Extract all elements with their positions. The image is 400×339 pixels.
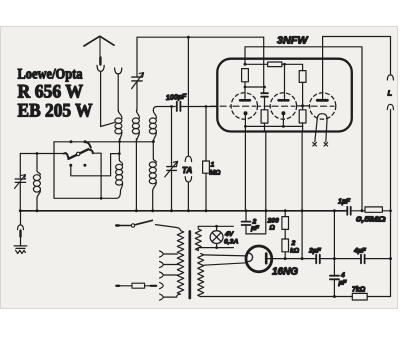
wire top-left grid feed y37 — [137, 36, 264, 38]
TA pickup terminals — [185, 37, 191, 211]
svg-text:16NG: 16NG — [272, 266, 298, 277]
wire switch B loop to L1b top — [71, 154, 120, 176]
variable capacitor C-tune2 — [165, 107, 178, 211]
node (188.4,37.2) — [187, 36, 190, 39]
svg-text:2: 2 — [291, 240, 296, 247]
band switch S1 — [64, 142, 93, 159]
svg-text:100µF: 100µF — [166, 92, 188, 102]
capacitor 100pF — [177, 102, 181, 111]
node (245,87) — [244, 86, 247, 89]
wire L1 bottom through to node — [119, 139, 121, 154]
node (283.4,126.4) — [282, 125, 285, 128]
node (302.1,258.6) — [301, 257, 304, 260]
svg-text:Loewe/Opta: Loewe/Opta — [18, 67, 84, 83]
node (390.5,210.8) — [389, 209, 392, 212]
tube V1 circle — [231, 93, 257, 119]
wire cathode bus inside box y126.4 — [245, 113, 302, 127]
wire R-grid3 down — [302, 104, 304, 131]
wire tube2 anode lead — [284, 64, 286, 100]
tube V3 inner dash — [311, 105, 334, 107]
tube V3 cathode cup — [317, 114, 327, 119]
node (119.5,141.5) — [118, 140, 121, 143]
capacitor 1uF bus — [347, 207, 350, 215]
resistor 2kOhm — [282, 239, 289, 259]
node switch contact A — [84, 140, 87, 143]
tube V2 cathode dot — [281, 111, 285, 115]
node (334.4,258.6) — [333, 257, 336, 260]
node lamp top — [215, 225, 218, 228]
tube block 3NFW box — [217, 59, 351, 132]
wire tube1 cathode down to bus — [244, 126, 246, 210]
tube V1 inner dash — [233, 105, 256, 107]
wire AF line mid — [320, 258, 361, 260]
svg-text:1: 1 — [211, 162, 215, 169]
svg-text:0,3A: 0,3A — [224, 239, 238, 246]
wire switch box left x54 — [54, 142, 116, 199]
node (71,141.8) — [70, 140, 73, 143]
wire right rail down — [390, 110, 392, 297]
coil L3b (second row) — [149, 142, 156, 191]
node (206,106.5) — [205, 105, 208, 108]
16NG cathode arc — [247, 253, 253, 261]
svg-text:2µF: 2µF — [308, 248, 322, 255]
tube V3 cathode leads — [315, 119, 327, 142]
node bus dots — [19, 209, 364, 212]
rectifier 16NG circle — [246, 246, 272, 272]
capacitor 4uF vertical — [330, 276, 339, 280]
svg-text:R 656 W: R 656 W — [18, 82, 84, 102]
ground connector socket — [18, 225, 24, 230]
ground plug pin — [19, 231, 21, 237]
wire R-anode1 to tube1 — [244, 82, 246, 100]
heater lead 1 to 16NG — [204, 255, 247, 256]
wire inner top rail y64.3 — [245, 64, 303, 70]
wire L3b bottom to main bus — [152, 191, 154, 211]
node lamp bottom — [215, 246, 218, 249]
node (101.1,198.3) — [100, 197, 103, 200]
tube V2 inner dash — [272, 105, 295, 107]
wire grid line y106.5 — [180, 106, 217, 108]
wire x334 vertical — [333, 211, 335, 297]
svg-text:kΩ: kΩ — [290, 248, 300, 255]
dial lamp — [210, 226, 223, 247]
mains fuse link — [116, 283, 156, 288]
node (171.5,106.5) — [170, 105, 173, 108]
tube V3 circle dashed — [309, 93, 335, 119]
transformer HT winding — [198, 254, 204, 297]
wire R-grid2 line down across bus — [246, 132, 266, 234]
resistor 1MOhm — [203, 107, 210, 211]
antenna socket 1 — [97, 65, 104, 71]
wire L2 bottom to main bus — [135, 139, 137, 211]
node (334.4,296.5) — [333, 295, 336, 298]
wire 0.5M to right rail — [382, 210, 390, 212]
tube V1 cathode dot — [244, 111, 248, 115]
wire grid3 line down to AF line — [301, 132, 303, 259]
node switch terminal C — [83, 164, 86, 167]
wire L3 top to grid line — [153, 107, 175, 111]
wire band line y141.5 — [54, 141, 154, 143]
lamp rails — [198, 226, 233, 247]
transformer primary winding — [177, 231, 184, 297]
ground symbol — [14, 237, 27, 254]
node (264.5,87) — [263, 86, 266, 89]
tube V1 anode bar — [240, 99, 250, 102]
wire 16NG anode to AF line — [266, 258, 316, 260]
tube V2 circle — [270, 93, 296, 119]
svg-text:0,5MΩ: 0,5MΩ — [356, 215, 386, 224]
node (245,64.3) — [244, 63, 247, 66]
link tube2-tube3 solid — [295, 105, 311, 107]
HT rail y46.8 — [245, 47, 362, 211]
ground bus main y210.8 — [20, 210, 347, 212]
mains switch S2 — [116, 220, 180, 230]
16NG anode bar — [265, 254, 268, 264]
svg-text:EB 205 W: EB 205 W — [18, 101, 93, 121]
svg-text:MΩ: MΩ — [210, 170, 222, 177]
dashed line tube1-tube2 — [245, 105, 283, 107]
bottom bus y296.5 — [201, 296, 391, 298]
svg-text:µF: µF — [250, 225, 260, 232]
anode rail top y36.5 right — [323, 37, 391, 101]
capacitor 2uF AF — [316, 255, 320, 264]
svg-text:µF: µF — [338, 280, 348, 287]
node (390.5,258.6) — [389, 257, 392, 260]
svg-text:7kΩ: 7kΩ — [352, 287, 366, 294]
node (119.5,153.6) — [118, 152, 121, 155]
capacitor C-coupling interstage — [261, 93, 268, 97]
svg-text:Ω: Ω — [269, 225, 276, 232]
heater lead 2 to 16NG — [204, 263, 247, 265]
wire switch pole down x101 — [93, 153, 101, 198]
coil L3 (top row) — [149, 110, 156, 141]
coil L2 (top row) — [132, 110, 139, 141]
variable capacitor C-tune1 — [132, 37, 144, 110]
resistor R-anode2 (upper x302.6) — [299, 71, 306, 83]
svg-text:4V: 4V — [224, 231, 235, 238]
resistor R-anode1 (vertical) — [242, 69, 249, 82]
node (302.6,105.9) — [301, 104, 304, 107]
tube V2 anode bar — [279, 99, 289, 102]
coil L1 (aerial coil, top row) — [115, 110, 122, 141]
wire top feed to C-coupling — [263, 37, 265, 92]
capacitor 2uF (cathode) — [242, 211, 251, 234]
wire R-anode2 to node — [302, 82, 304, 104]
resistor 200 Ohm — [282, 211, 289, 239]
node switch terminal B — [69, 164, 72, 167]
antenna — [84, 36, 114, 64]
node (245.4,126.4) — [244, 125, 247, 128]
svg-text:4µF: 4µF — [353, 248, 367, 255]
svg-text:4: 4 — [340, 272, 345, 279]
wire L1b bottom to bus line y198.3 — [117, 191, 121, 198]
resistor 7kOhm — [352, 293, 367, 300]
svg-text:L: L — [388, 89, 393, 98]
transformer core — [188, 232, 191, 299]
resistor R-grid2 — [261, 110, 268, 123]
speaker L terminals — [387, 75, 393, 110]
transformer 4V winding — [195, 226, 201, 250]
wire AF line right — [365, 258, 391, 260]
node (285.2,258.6) — [284, 257, 287, 260]
svg-text:1µF: 1µF — [338, 199, 351, 206]
coil L0 (left, frame aerial) — [33, 154, 40, 211]
resistor 0.5MOhm — [365, 207, 382, 212]
wire y153.5 left — [20, 153, 66, 155]
wire antenna tap to coil L1 — [101, 71, 115, 126]
node (37,153.5) — [36, 152, 39, 155]
voltage tap sockets — [160, 251, 178, 300]
tube V3 anode bar — [317, 99, 327, 102]
wire socket2 to coil L1 top — [117, 74, 119, 111]
wire R-grid2 down through box — [264, 123, 266, 131]
node (153.5,141.5) — [152, 140, 155, 143]
trimmer capacitor left — [15, 154, 26, 211]
resistor R-grid3 (lower x302.6) — [299, 110, 306, 123]
node (284.5,64.3) — [283, 63, 286, 66]
wire bus to 0.5M — [351, 210, 365, 212]
capacitor 4uF AF — [361, 255, 365, 264]
svg-text:TA: TA — [182, 166, 192, 175]
svg-text:3NFW: 3NFW — [277, 35, 309, 47]
wire y87 stub — [245, 86, 265, 88]
coil L1b (second row under L1) — [116, 154, 123, 191]
svg-text:200: 200 — [267, 218, 280, 225]
resistor R-screen (horizontal) — [268, 62, 282, 67]
antenna socket 2 — [115, 68, 122, 74]
speaker terminal x marks — [313, 142, 328, 146]
grid line dashed into tube1 — [211, 105, 245, 107]
wire C-coupling to R-grid2 — [264, 97, 266, 110]
